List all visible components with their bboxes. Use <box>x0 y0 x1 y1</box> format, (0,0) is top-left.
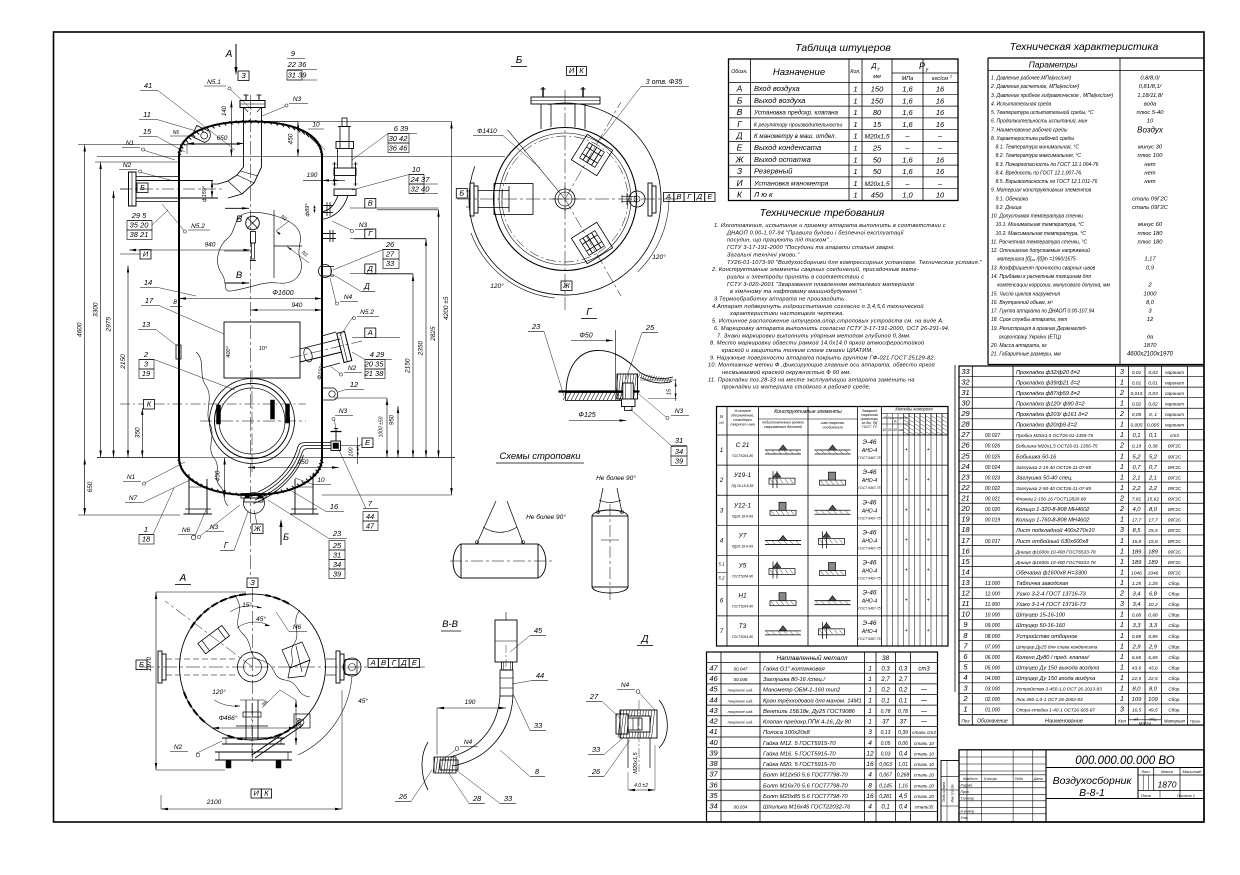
V-V dim 190 <box>437 707 506 709</box>
label boxes V G D A right side <box>365 199 376 209</box>
svg-text:11. Прокладки поз.28-33 на мес: 11. Прокладки поз.28-33 на месте эксплуа… <box>708 377 915 383</box>
svg-text:3,3: 3,3 <box>1149 623 1158 629</box>
svg-text:нет: нет <box>1144 162 1155 168</box>
svg-text:0,4: 0,4 <box>899 805 908 811</box>
svg-text:0,2: 0,2 <box>881 688 890 694</box>
svg-text:1: 1 <box>1120 548 1124 555</box>
svg-text:2,2: 2,2 <box>1148 486 1158 492</box>
svg-text:5.1: 5.1 <box>718 562 725 567</box>
svg-text:Э-46: Э-46 <box>863 439 877 446</box>
svg-text:8,0: 8,0 <box>1149 507 1158 513</box>
svg-text:8,0: 8,0 <box>1146 300 1155 306</box>
svg-text:3: 3 <box>1120 369 1124 376</box>
svg-text:450: 450 <box>288 133 295 144</box>
vid B IK bolts <box>542 87 544 97</box>
svg-text:09.000: 09.000 <box>985 623 1001 629</box>
svg-text:12. Отношение допускаемых напр: 12. Отношение допускаемых напряжений <box>991 247 1090 254</box>
svg-text:характеристики настоящего черт: характеристики настоящего чертежа. <box>729 311 844 317</box>
svg-text:Бобышка М20х1,5 ОСТ26-01-1356-: Бобышка М20х1,5 ОСТ26-01-1356-75 <box>1016 444 1098 449</box>
svg-text:9. Наружные поверхности аппара: 9. Наружные поверхности аппарата покрыть… <box>710 355 936 361</box>
svg-text:Кол.: Кол. <box>850 69 860 75</box>
svg-text:1,0: 1,0 <box>902 191 913 200</box>
svg-text:Схемы строповки: Схемы строповки <box>499 451 581 462</box>
svg-text:–: – <box>904 132 910 141</box>
svg-text:Воздух: Воздух <box>1137 125 1164 134</box>
svg-text:К манометру в маш. отдел.: К манометру в маш. отдел. <box>754 133 836 140</box>
svg-text:N4: N4 <box>621 682 630 689</box>
svg-text:25: 25 <box>887 428 892 432</box>
svg-text:0,78: 0,78 <box>898 709 908 715</box>
svg-text:47: 47 <box>366 522 375 531</box>
detail D plug hex <box>616 714 628 734</box>
svg-text:2825: 2825 <box>430 326 437 342</box>
svg-text:И: И <box>569 66 575 75</box>
svg-text:1: 1 <box>853 144 857 153</box>
inlet pipe elbow segments <box>218 167 244 184</box>
svg-text:34: 34 <box>675 447 683 456</box>
svg-text:Кран трёхходовой для маном. 14: Кран трёхходовой для маном. 14М1 <box>763 697 862 704</box>
svg-text:Устройство 3-450-1,0 ОСТ 26-2: Устройство 3-450-1,0 ОСТ 26-2013-83 <box>1016 686 1102 692</box>
svg-text:09Г2С: 09Г2С <box>1168 539 1182 544</box>
svg-text:Люк 450-1,0-1 ОСТ 26-2002-83: Люк 450-1,0-1 ОСТ 26-2002-83 <box>1015 697 1083 702</box>
svg-text:паронит: паронит <box>1165 401 1184 406</box>
svg-text:0,281: 0,281 <box>879 794 892 800</box>
svg-text:22: 22 <box>960 483 970 492</box>
svg-text:1: 1 <box>868 719 872 726</box>
svg-text:–: – <box>937 132 943 141</box>
vessel bottom head <box>179 458 322 495</box>
svg-text:Прокладка ф203/ ф161 δ=2: Прокладка ф203/ ф161 δ=2 <box>1016 412 1089 418</box>
V-V wall arc <box>422 742 428 790</box>
vid B left nozzle pad <box>494 184 533 215</box>
svg-text:41: 41 <box>709 727 717 736</box>
top tangent line <box>97 156 505 158</box>
svg-text:5,2: 5,2 <box>1132 454 1141 460</box>
svg-text:1046: 1046 <box>1131 570 1142 576</box>
svg-text:В-8-1: В-8-1 <box>1079 787 1105 799</box>
svg-text:Д: Д <box>367 264 374 273</box>
svg-text:0,03: 0,03 <box>881 751 891 757</box>
svg-text:Ж: Ж <box>735 154 745 164</box>
svg-text:Пров.: Пров. <box>961 790 970 794</box>
svg-text:3. Давление пробное гидравличе: 3. Давление пробное гидравлическое , МПа… <box>991 93 1113 99</box>
svg-text:1: 1 <box>144 525 148 534</box>
vid B lower diagonal pad <box>571 222 612 263</box>
svg-text:Выход конденсата: Выход конденсата <box>754 143 821 152</box>
manometer device circle <box>246 216 260 230</box>
svg-text:2,2: 2,2 <box>1131 486 1141 492</box>
svg-text:Э-46: Э-46 <box>863 499 877 506</box>
svg-text:N1: N1 <box>127 474 136 481</box>
svg-text:ГОСТ 9467-75: ГОСТ 9467-75 <box>858 637 880 641</box>
svg-text:покупное изд.: покупное изд. <box>728 698 754 703</box>
svg-text:17: 17 <box>961 536 970 545</box>
svg-text:1: 1 <box>1120 569 1124 576</box>
svg-text:сталь 10: сталь 10 <box>914 762 934 767</box>
svg-text:12.000: 12.000 <box>985 592 1001 598</box>
svg-text:120°: 120° <box>490 282 504 290</box>
svg-text:+: + <box>905 598 908 604</box>
svg-text:1: 1 <box>853 85 857 94</box>
svg-text:0,7: 0,7 <box>1149 465 1158 471</box>
svg-text:Штуцер Ду 150 входа воздуха: Штуцер Ду 150 входа воздуха <box>1016 676 1095 682</box>
svg-text:2: 2 <box>1119 443 1124 450</box>
svg-text:10. Монтажные метки Ф ,фиксиру: 10. Монтажные метки Ф ,фиксирующие главн… <box>708 362 935 369</box>
svg-text:Сбор.: Сбор. <box>1168 581 1180 586</box>
svg-text:Лист: Лист <box>968 777 978 781</box>
svg-text:24 37: 24 37 <box>410 175 431 184</box>
deflector plate rect <box>224 322 300 378</box>
svg-text:N2: N2 <box>123 162 132 169</box>
view A right small circle <box>343 658 361 676</box>
svg-text:Днище ф1600х 10-400 ГОСТ6533: Днище ф1600х 10-400 ГОСТ6533-78 <box>1015 560 1096 565</box>
bottom nozzle Zh flange <box>244 493 265 514</box>
svg-text:38: 38 <box>882 655 890 662</box>
label box 3 top <box>238 71 249 81</box>
svg-text:09Г2С: 09Г2С <box>1168 518 1182 523</box>
svg-text:1: 1 <box>1120 686 1124 693</box>
svg-text:3: 3 <box>1120 527 1124 534</box>
left nozzle B axis <box>120 188 222 190</box>
svg-text:0,9: 0,9 <box>1146 265 1155 271</box>
svg-text:Штуцер 50-16-160: Штуцер 50-16-160 <box>1016 623 1066 629</box>
svg-text:мм: мм <box>873 74 881 80</box>
svg-text:Д: Д <box>400 658 407 667</box>
svg-text:Сбор.: Сбор. <box>1168 644 1180 649</box>
svg-text:4: 4 <box>868 772 872 779</box>
svg-text:1: 1 <box>1120 675 1124 682</box>
svg-text:37: 37 <box>900 720 907 726</box>
svg-text:Болт М12х50 5.6 ГОСТ7798-70: Болт М12х50 5.6 ГОСТ7798-70 <box>763 773 849 779</box>
svg-text:Ж: Ж <box>253 524 262 533</box>
svg-text:16: 16 <box>866 793 874 800</box>
svg-text:13: 13 <box>961 578 970 587</box>
svg-text:35 20: 35 20 <box>130 221 150 230</box>
svg-text:паронит: паронит <box>1165 423 1184 428</box>
svg-text:0,03: 0,03 <box>1148 370 1158 376</box>
svg-text:Кол: Кол <box>1118 718 1126 723</box>
nozzle A flange <box>337 331 352 362</box>
svg-text:27: 27 <box>385 250 395 259</box>
svg-text:05.000: 05.000 <box>985 665 1001 671</box>
svg-text:06.000: 06.000 <box>985 655 1001 661</box>
svg-text:1: 1 <box>868 697 872 704</box>
svg-text:650: 650 <box>87 481 94 492</box>
svg-text:ГСТУ 3-020-2001 "Зварювання п: ГСТУ 3-020-2001 "Зварювання плавленням м… <box>727 282 914 288</box>
svg-text:сварного шва: сварного шва <box>730 423 754 427</box>
svg-text:1. Изготовления, испытание и п: 1. Изготовления, испытание и приемку апп… <box>714 223 946 229</box>
svg-text:свариваемых деталей: свариваемых деталей <box>764 425 802 429</box>
svg-text:N5.2: N5.2 <box>360 309 374 316</box>
section B wavy boundary <box>218 212 302 291</box>
svg-text:Лист отбойный 630х600х8: Лист отбойный 630х600х8 <box>1015 538 1089 545</box>
svg-text:50: 50 <box>893 428 897 432</box>
svg-text:0,68: 0,68 <box>1132 613 1142 619</box>
svg-text:сталь 09Г2С: сталь 09Г2С <box>1132 205 1169 211</box>
svg-text:1: 1 <box>853 155 857 164</box>
svg-text:Масштаб: Масштаб <box>1183 769 1202 774</box>
svg-text:1,25: 1,25 <box>1132 581 1142 587</box>
svg-text:0,05: 0,05 <box>881 741 891 747</box>
svg-text:Таблица штуцеров: Таблица штуцеров <box>795 42 891 54</box>
svg-text:Сбор.: Сбор. <box>1168 697 1180 702</box>
svg-text:10: 10 <box>312 122 320 129</box>
svg-text:вода: вода <box>1144 101 1157 107</box>
svg-text:33: 33 <box>592 745 601 754</box>
svg-text:Воздухосборник: Воздухосборник <box>1053 775 1133 787</box>
vessel bottom head weld ticks <box>178 460 181 463</box>
svg-text:Кольцо 1-320-8-808 МН4602: Кольцо 1-320-8-808 МН4602 <box>1016 507 1090 513</box>
svg-text:+: + <box>905 537 908 543</box>
svg-text:16: 16 <box>936 155 945 164</box>
label box K <box>144 400 155 410</box>
svg-text:Клапан предохр.ППК 4-16, Ду 80: Клапан предохр.ППК 4-16, Ду 80 <box>763 720 852 726</box>
svg-text:4.Аппарат подвергнуть гидроисп: 4.Аппарат подвергнуть гидроиспытанию сог… <box>712 303 924 310</box>
svg-text:2975: 2975 <box>106 317 113 333</box>
svg-text:ф89°: ф89° <box>305 203 311 217</box>
svg-text:8: 8 <box>173 299 177 306</box>
svg-text:Прокладка ф87/ф59 δ=2: Прокладка ф87/ф59 δ=2 <box>1016 391 1081 397</box>
svg-text:120°: 120° <box>652 253 666 261</box>
svg-text:8.3. Пожароопасность по ГОСТ 1: 8.3. Пожароопасность по ГОСТ 12.1.004-76 <box>996 162 1099 168</box>
svg-text:02.000: 02.000 <box>985 697 1001 703</box>
svg-text:2. Давление расчетное, МПа(кгс: 2. Давление расчетное, МПа(кгс/см²) <box>990 84 1080 90</box>
svg-text:Ф1600: Ф1600 <box>272 290 293 297</box>
svg-text:N3: N3 <box>293 96 302 103</box>
svg-text:12: 12 <box>1147 317 1154 323</box>
svg-text:Сбор.: Сбор. <box>1168 665 1180 670</box>
svg-text:39: 39 <box>333 570 342 579</box>
svg-text:АНО-4: АНО-4 <box>861 508 878 514</box>
svg-text:сталь ст3: сталь ст3 <box>912 730 936 735</box>
svg-text:плюс 180: плюс 180 <box>1138 239 1164 245</box>
svg-text:1,6: 1,6 <box>902 120 913 129</box>
svg-text:А: А <box>367 328 373 337</box>
svg-text:7. Знаки маркировки выполнить: 7. Знаки маркировки выполнить ударным ме… <box>717 332 911 339</box>
svg-text:А: А <box>225 49 233 60</box>
svg-text:50: 50 <box>873 167 882 176</box>
svg-text:10: 10 <box>1147 119 1154 125</box>
svg-text:Э-46: Э-46 <box>863 469 877 476</box>
svg-text:6. Маркировку аппарата выполни: 6. Маркировку аппарата выполнить согласн… <box>714 326 950 332</box>
svg-text:4.0 ±2: 4.0 ±2 <box>634 783 648 789</box>
svg-text:Э-46: Э-46 <box>863 590 877 597</box>
svg-text:10. Допустимая температура сте: 10. Допустимая температура стенки <box>991 214 1083 220</box>
svg-text:10.2. Максимальная температур: 10.2. Максимальная температура, °С <box>996 231 1087 237</box>
svg-text:Штуцер Ду25 для слива конденса: Штуцер Ду25 для слива конденсата <box>1016 644 1098 649</box>
svg-text:Сбор.: Сбор. <box>1168 613 1180 618</box>
svg-text:1,6: 1,6 <box>902 96 913 105</box>
manhole bolt sections <box>217 405 221 424</box>
svg-text:0,7: 0,7 <box>1132 465 1141 471</box>
svg-text:Гайка М12. 5 ГОСТ5915-70: Гайка М12. 5 ГОСТ5915-70 <box>763 740 836 747</box>
svg-text:—: — <box>920 720 928 726</box>
svg-text:охоронпраці України (ЕТЦ): охоронпраці України (ЕТЦ) <box>999 334 1062 340</box>
svg-text:Резервный: Резервный <box>754 167 793 176</box>
svg-text:Загальні технічні умови.": Загальні технічні умови." <box>727 252 800 258</box>
svg-text:Ф1410: Ф1410 <box>477 128 497 135</box>
lifting scheme horizontal slings <box>477 501 496 543</box>
svg-text:1: 1 <box>1120 538 1124 545</box>
vid B left nozzle pipe <box>478 190 509 192</box>
svg-text:Лит.: Лит. <box>1140 769 1150 774</box>
svg-text:+: + <box>927 477 930 483</box>
svg-text:Д: Д <box>736 131 743 141</box>
svg-text:Заглушка 50-40 спец.: Заглушка 50-40 спец. <box>1016 475 1073 481</box>
svg-text:80: 80 <box>873 108 882 117</box>
svg-text:29: 29 <box>960 409 970 418</box>
svg-text:В-В: В-В <box>442 619 459 630</box>
svg-text:12: 12 <box>866 750 874 757</box>
svg-text:00.021: 00.021 <box>985 497 1001 503</box>
svg-text:49,5: 49,5 <box>1148 708 1158 714</box>
svg-text:34: 34 <box>333 560 341 569</box>
view A label B box <box>136 660 147 670</box>
svg-text:N docум.: N docум. <box>984 777 998 781</box>
svg-text:нет: нет <box>1144 179 1155 185</box>
svg-text:ст3: ст3 <box>1170 433 1179 438</box>
svg-text:–: – <box>937 179 943 188</box>
svg-text:У12-1: У12-1 <box>733 502 752 509</box>
svg-text:Табличка заводская: Табличка заводская <box>1016 581 1068 587</box>
svg-text:паронит: паронит <box>1165 391 1184 396</box>
svg-text:8,0: 8,0 <box>1132 687 1141 693</box>
svg-text:40: 40 <box>709 738 718 747</box>
svg-text:8. Место маркировки обвести ра: 8. Место маркировки обвести рамкой 14.0х… <box>710 340 924 347</box>
svg-text:%: % <box>894 420 897 424</box>
svg-text:23: 23 <box>531 322 541 331</box>
svg-text:0,85: 0,85 <box>1132 634 1142 640</box>
svg-text:20. Масса аппарата, кг: 20. Масса аппарата, кг <box>990 343 1047 349</box>
svg-text:0,06: 0,06 <box>898 741 908 747</box>
svg-text:0,01: 0,01 <box>1148 380 1158 386</box>
dim 950 bottom horizontal <box>248 467 339 469</box>
svg-text:M20x1,5: M20x1,5 <box>633 752 639 774</box>
svg-text:00.046: 00.046 <box>734 677 748 682</box>
svg-text:Наплавленный металл: Наплавленный металл <box>776 654 847 662</box>
dim 940 mid right <box>251 309 323 311</box>
dim 450 bottom head depth <box>224 458 226 498</box>
svg-text:15: 15 <box>961 557 970 566</box>
svg-text:26: 26 <box>591 767 601 776</box>
svg-text:00.017: 00.017 <box>985 539 1001 545</box>
svg-text:сталь 10: сталь 10 <box>914 751 934 756</box>
lifting scheme vertical vessel <box>592 516 628 587</box>
svg-text:Лист: Лист <box>1140 793 1152 798</box>
svg-text:189: 189 <box>1148 549 1158 555</box>
svg-text:Шпилька М16х45 ГОСТ22032-76: Шпилька М16х45 ГОСТ22032-76 <box>763 805 851 811</box>
svg-text:09Г2С: 09Г2С <box>1168 465 1182 470</box>
svg-text:У19-1: У19-1 <box>733 472 752 479</box>
svg-text:17,7: 17,7 <box>1148 518 1158 524</box>
view A bottom nozzle stub <box>345 660 357 675</box>
svg-text:ГОСТ 9467-75: ГОСТ 9467-75 <box>858 516 880 520</box>
title block left strip <box>941 761 959 823</box>
detail G dim 15 <box>675 379 677 401</box>
svg-text:покупное изд.: покупное изд. <box>728 709 754 714</box>
svg-text:1000: 1000 <box>1144 291 1158 297</box>
svg-text:Сбор.: Сбор. <box>1168 708 1180 713</box>
detail G head section band <box>640 373 673 379</box>
svg-text:41: 41 <box>144 81 152 90</box>
svg-text:В: В <box>737 107 743 117</box>
svg-text:18: 18 <box>961 525 970 534</box>
svg-text:Заглушка 2-50-40 ОСТ26-11-07-8: Заглушка 2-50-40 ОСТ26-11-07-85 <box>1016 486 1091 491</box>
svg-text:11: 11 <box>962 599 970 608</box>
safety valve base flange <box>334 189 356 196</box>
svg-text:09Г2С: 09Г2С <box>1168 560 1182 565</box>
svg-text:сталь 09Г2С: сталь 09Г2С <box>1132 196 1169 202</box>
svg-text:Сбор.: Сбор. <box>1168 687 1180 692</box>
svg-text:N5.2: N5.2 <box>191 223 205 230</box>
svg-text:Манометр ОБМ-1-160 тип2: Манометр ОБМ-1-160 тип2 <box>763 688 841 694</box>
svg-text:27: 27 <box>960 430 970 439</box>
svg-text:0,03: 0,03 <box>1148 391 1158 397</box>
svg-text:25: 25 <box>645 323 655 332</box>
svg-text:А: А <box>665 192 671 201</box>
svg-text:4,5: 4,5 <box>899 794 908 800</box>
svg-text:Выход воздуха: Выход воздуха <box>754 96 805 105</box>
svg-text:0,2: 0,2 <box>899 688 908 694</box>
svg-text:44: 44 <box>536 671 544 680</box>
svg-text:2,9: 2,9 <box>1131 644 1141 650</box>
svg-text:1: 1 <box>1120 517 1124 524</box>
svg-text:3,4: 3,4 <box>1132 592 1140 598</box>
svg-text:плюс 100: плюс 100 <box>1138 153 1164 159</box>
svg-text:33: 33 <box>386 259 395 268</box>
svg-text:09Г2С: 09Г2С <box>1168 549 1182 554</box>
view A main circle <box>180 594 326 740</box>
svg-text:Болт М20х85 5.6 ГОСТ7798-70: Болт М20х85 5.6 ГОСТ7798-70 <box>763 794 849 800</box>
svg-text:Ж: Ж <box>562 281 571 290</box>
svg-text:00.020: 00.020 <box>985 507 1001 513</box>
drain pipe curved bundle <box>258 443 331 493</box>
svg-text:14: 14 <box>961 567 969 576</box>
svg-text:ст3: ст3 <box>918 666 930 672</box>
left nozzle B pipe <box>136 180 213 182</box>
svg-text:N6: N6 <box>182 527 191 534</box>
svg-text:ГОСТ 9467-75: ГОСТ 9467-75 <box>858 546 880 550</box>
svg-text:1870: 1870 <box>1144 343 1158 349</box>
svg-text:Гайка М16. 5 ГОСТ5915-70: Гайка М16. 5 ГОСТ5915-70 <box>763 750 836 757</box>
svg-text:44: 44 <box>366 512 374 521</box>
svg-text:4600: 4600 <box>77 322 84 337</box>
svg-text:И: И <box>253 789 259 798</box>
svg-text:31: 31 <box>333 551 341 560</box>
vid B outer ring arc <box>469 103 661 295</box>
svg-text:0,85: 0,85 <box>1148 634 1158 640</box>
svg-text:компенсации коррозии, минусово: компенсации коррозии, минусового допуска… <box>997 283 1110 289</box>
svg-text:N3: N3 <box>675 408 684 415</box>
svg-text:+: + <box>905 568 908 574</box>
left chain extension lines <box>78 514 180 516</box>
svg-text:Инв. N подл.: Инв. N подл. <box>951 784 955 803</box>
svg-text:34: 34 <box>709 802 717 811</box>
svg-text:Ушко 3-2-4 ГОСТ 13716-73: Ушко 3-2-4 ГОСТ 13716-73 <box>1015 592 1087 598</box>
dim 190 valve <box>303 179 345 181</box>
support leg left <box>188 474 190 514</box>
nozzle G stub <box>322 233 336 235</box>
view A axes <box>140 666 425 668</box>
nozzle A pad <box>322 332 336 336</box>
svg-text:Прокладка ф39/ф21 δ=2: Прокладка ф39/ф21 δ=2 <box>1016 380 1081 386</box>
view A diagonal brace <box>252 722 300 755</box>
vid B head circle <box>499 133 631 265</box>
svg-text:Сбор.: Сбор. <box>1168 655 1180 660</box>
svg-text:1: 1 <box>1120 580 1124 587</box>
svg-text:8,5: 8,5 <box>1132 528 1141 534</box>
svg-text:6 39: 6 39 <box>394 124 409 133</box>
